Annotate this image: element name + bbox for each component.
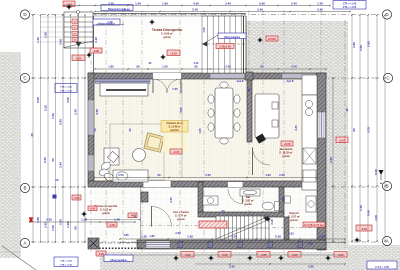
svg-text:C.T.A = -0.05: C.T.A = -0.05	[375, 266, 389, 269]
svg-text:0.90: 0.90	[193, 1, 199, 5]
svg-text:2.55: 2.55	[307, 242, 313, 246]
svg-text:90: 90	[194, 65, 198, 69]
svg-text:gresie: gresie	[290, 218, 298, 222]
svg-text:1.50: 1.50	[202, 27, 206, 33]
svg-text:2.30: 2.30	[231, 235, 237, 239]
svg-text:gresie: gresie	[163, 35, 171, 39]
svg-text:4.50: 4.50	[95, 109, 99, 115]
svg-text:1.05: 1.05	[198, 128, 202, 134]
svg-text:3.20: 3.20	[108, 1, 114, 5]
svg-text:CTA = -0.35: CTA = -0.35	[60, 263, 73, 266]
svg-text:2.50: 2.50	[205, 173, 211, 177]
svg-text:Bai: Bai	[246, 195, 250, 199]
svg-text:CTA = +1.05: CTA = +1.05	[343, 6, 357, 9]
svg-text:+2.35: +2.35	[170, 51, 177, 55]
svg-text:45: 45	[30, 133, 34, 137]
svg-text:1.00: 1.00	[135, 1, 141, 5]
svg-text:5.90: 5.90	[59, 119, 63, 125]
svg-text:60: 60	[352, 128, 356, 132]
svg-text:-0.35: -0.35	[74, 196, 80, 200]
svg-text:2.40: 2.40	[257, 7, 263, 11]
svg-text:0.40: 0.40	[367, 210, 371, 216]
svg-text:1.50x1.50: 1.50x1.50	[219, 44, 231, 48]
svg-text:2.30: 2.30	[169, 197, 173, 203]
svg-text:40: 40	[222, 209, 225, 213]
svg-text:-0.05: -0.05	[361, 227, 367, 231]
svg-text:7.35: 7.35	[172, 87, 178, 91]
svg-text:Afisaj metalice: Afisaj metalice	[110, 259, 127, 262]
svg-text:S. 9.74 m²: S. 9.74 m²	[175, 214, 187, 218]
svg-text:1.15: 1.15	[359, 205, 363, 211]
svg-text:2.55: 2.55	[229, 265, 235, 269]
svg-text:1.20: 1.20	[81, 218, 87, 222]
svg-text:2.40: 2.40	[59, 162, 63, 168]
svg-text:3.00: 3.00	[59, 39, 63, 45]
svg-text:1.85: 1.85	[44, 32, 48, 38]
svg-text:2.50: 2.50	[118, 173, 124, 177]
svg-text:S. 6.22 m²: S. 6.22 m²	[100, 208, 112, 212]
svg-text:-0.30: -0.30	[93, 49, 99, 53]
svg-text:B: B	[23, 186, 26, 191]
svg-text:gresie: gresie	[244, 202, 252, 206]
svg-text:90: 90	[247, 88, 251, 91]
svg-text:Depozit: Depozit	[289, 211, 299, 215]
svg-text:2.40: 2.40	[317, 7, 323, 11]
svg-text:3.00: 3.00	[374, 215, 378, 221]
svg-text:2.30: 2.30	[279, 173, 285, 177]
svg-text:h=1.76 m 77 mp: h=1.76 m 77 mp	[304, 223, 324, 227]
svg-text:CTA = +1.42: CTA = +1.42	[343, 3, 357, 6]
svg-text:Terasa Descoperita: Terasa Descoperita	[152, 28, 182, 32]
svg-text:2.40: 2.40	[291, 1, 297, 5]
svg-text:+0.05: +0.05	[173, 150, 180, 154]
svg-text:2.30: 2.30	[175, 231, 181, 235]
svg-text:1.85: 1.85	[123, 233, 129, 237]
svg-text:90: 90	[281, 197, 285, 200]
svg-text:2.40: 2.40	[194, 62, 199, 65]
svg-text:CTA = -0.05: CTA = -0.05	[60, 259, 73, 262]
svg-text:-0.05: -0.05	[98, 252, 104, 256]
svg-text:2.50: 2.50	[329, 157, 333, 163]
svg-text:90: 90	[260, 65, 264, 69]
svg-text:S. 5.27 m²: S. 5.27 m²	[288, 215, 300, 219]
svg-text:1.40: 1.40	[114, 218, 120, 222]
svg-text:50: 50	[56, 178, 59, 182]
svg-text:2.55: 2.55	[308, 265, 314, 269]
svg-text:2.40: 2.40	[44, 222, 48, 228]
svg-text:3.20: 3.20	[94, 37, 98, 43]
svg-text:4.95: 4.95	[179, 107, 183, 113]
svg-text:1.30: 1.30	[317, 1, 323, 5]
svg-text:5.05: 5.05	[43, 157, 47, 163]
svg-text:Afisaj metalice: Afisaj metalice	[224, 36, 241, 39]
svg-text:1.85: 1.85	[149, 234, 155, 238]
svg-text:3.35: 3.35	[294, 125, 298, 131]
svg-text:2.40: 2.40	[192, 7, 198, 11]
svg-text:0.30: 0.30	[275, 235, 281, 239]
svg-text:Bucatarie: Bucatarie	[280, 147, 293, 151]
svg-text:Hol + Scara: Hol + Scara	[173, 210, 189, 214]
svg-text:2.85: 2.85	[352, 42, 356, 48]
svg-text:8.50: 8.50	[374, 169, 378, 175]
svg-text:▲: ▲	[380, 181, 383, 185]
svg-text:2.16: 2.16	[270, 219, 274, 225]
svg-text:5.05: 5.05	[36, 97, 40, 103]
svg-text:90: 90	[136, 65, 140, 69]
svg-text:S. 3.87 m²: S. 3.87 m²	[242, 199, 254, 203]
svg-text:2.00: 2.00	[359, 45, 363, 51]
svg-text:1.45: 1.45	[107, 20, 113, 24]
svg-text:1.85: 1.85	[108, 65, 114, 69]
svg-text:2.30: 2.30	[46, 218, 52, 222]
svg-text:S. 16.32 m²: S. 16.32 m²	[279, 151, 293, 155]
svg-text:2.30: 2.30	[36, 37, 40, 43]
svg-text:+2.05: +2.05	[339, 138, 346, 142]
svg-text:2.55: 2.55	[288, 232, 294, 236]
svg-text:CTA = -0.35: CTA = -0.35	[60, 90, 73, 93]
svg-text:2.40: 2.40	[124, 7, 130, 11]
svg-text:gresie: gresie	[282, 154, 290, 158]
svg-text:-0.35: -0.35	[76, 56, 82, 60]
svg-text:1.95: 1.95	[187, 235, 193, 239]
svg-text:50: 50	[51, 158, 55, 162]
svg-text:0.90: 0.90	[259, 1, 265, 5]
svg-text:3.00: 3.00	[66, 97, 70, 103]
svg-text:5.70: 5.70	[367, 127, 371, 133]
svg-text:2.85: 2.85	[367, 41, 371, 47]
svg-text:1.50: 1.50	[51, 225, 55, 231]
svg-text:2.40: 2.40	[291, 65, 297, 69]
svg-text:Apa B: Apa B	[237, 80, 244, 83]
svg-text:gresie: gresie	[177, 217, 185, 221]
svg-text:S. 9.69 m²: S. 9.69 m²	[161, 32, 173, 36]
svg-text:-0.05: -0.05	[109, 223, 115, 227]
svg-text:1.50: 1.50	[162, 65, 168, 69]
svg-text:2.40: 2.40	[225, 65, 231, 69]
svg-text:CTA = -0.40: CTA = -0.40	[60, 86, 73, 89]
svg-text:1.90: 1.90	[162, 1, 168, 5]
svg-text:90: 90	[157, 173, 161, 177]
svg-text:45: 45	[345, 108, 349, 112]
svg-text:2.30: 2.30	[141, 235, 147, 239]
svg-text:parchet: parchet	[170, 129, 179, 132]
svg-text:Camera de zi: Camera de zi	[166, 121, 182, 125]
svg-text:1.90: 1.90	[265, 173, 271, 177]
svg-text:6.42: 6.42	[90, 206, 96, 210]
svg-text:El.500: El.500	[268, 37, 276, 41]
svg-text:90: 90	[133, 214, 137, 217]
svg-text:1.20: 1.20	[66, 222, 70, 228]
svg-text:1.40: 1.40	[51, 113, 55, 119]
svg-text:5.25: 5.25	[44, 105, 48, 111]
svg-text:90: 90	[74, 226, 78, 230]
svg-text:2.30: 2.30	[319, 235, 325, 239]
svg-text:30: 30	[128, 128, 132, 131]
svg-text:2.40: 2.40	[225, 1, 231, 5]
svg-text:2.40: 2.40	[74, 109, 78, 115]
svg-text:B: B	[385, 184, 388, 189]
svg-text:+0.05: +0.05	[284, 142, 291, 146]
svg-text:gresie: gresie	[102, 211, 110, 215]
svg-text:50: 50	[93, 128, 97, 131]
svg-text:Apa B: Apa B	[287, 80, 294, 83]
svg-text:Terasa Acoperita: Terasa Acoperita	[95, 204, 118, 208]
